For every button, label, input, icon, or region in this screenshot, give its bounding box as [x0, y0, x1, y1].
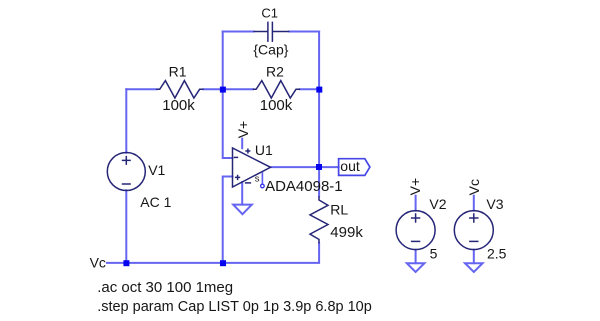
svg-text:C1: C1	[261, 6, 278, 21]
svg-text:s: s	[255, 173, 260, 184]
svg-text:.ac oct 30 100 1meg: .ac oct 30 100 1meg	[97, 279, 233, 296]
svg-text:U1: U1	[255, 142, 273, 158]
svg-text:100k: 100k	[162, 97, 195, 114]
svg-text:100k: 100k	[260, 97, 293, 114]
svg-text:V+: V+	[235, 121, 251, 139]
svg-text:V3: V3	[486, 196, 503, 212]
svg-text:V+: V+	[407, 178, 423, 196]
svg-text:2.5: 2.5	[487, 246, 507, 262]
svg-text:R1: R1	[169, 63, 187, 79]
svg-text:ADA4098-1: ADA4098-1	[265, 178, 343, 195]
svg-text:RL: RL	[330, 202, 348, 218]
svg-text:AC 1: AC 1	[140, 194, 171, 210]
svg-text:{Cap}: {Cap}	[253, 42, 288, 58]
svg-text:V2: V2	[429, 196, 446, 212]
svg-text:499k: 499k	[330, 224, 363, 241]
svg-text:Vc: Vc	[466, 179, 482, 195]
svg-text:V1: V1	[148, 162, 165, 178]
svg-text:5: 5	[430, 246, 438, 262]
svg-text:out: out	[340, 158, 360, 174]
svg-text:.step param Cap LIST 0p 1p 3.9: .step param Cap LIST 0p 1p 3.9p 6.8p 10p	[97, 299, 372, 315]
svg-text:Vc: Vc	[90, 255, 106, 271]
svg-text:R2: R2	[266, 63, 284, 79]
